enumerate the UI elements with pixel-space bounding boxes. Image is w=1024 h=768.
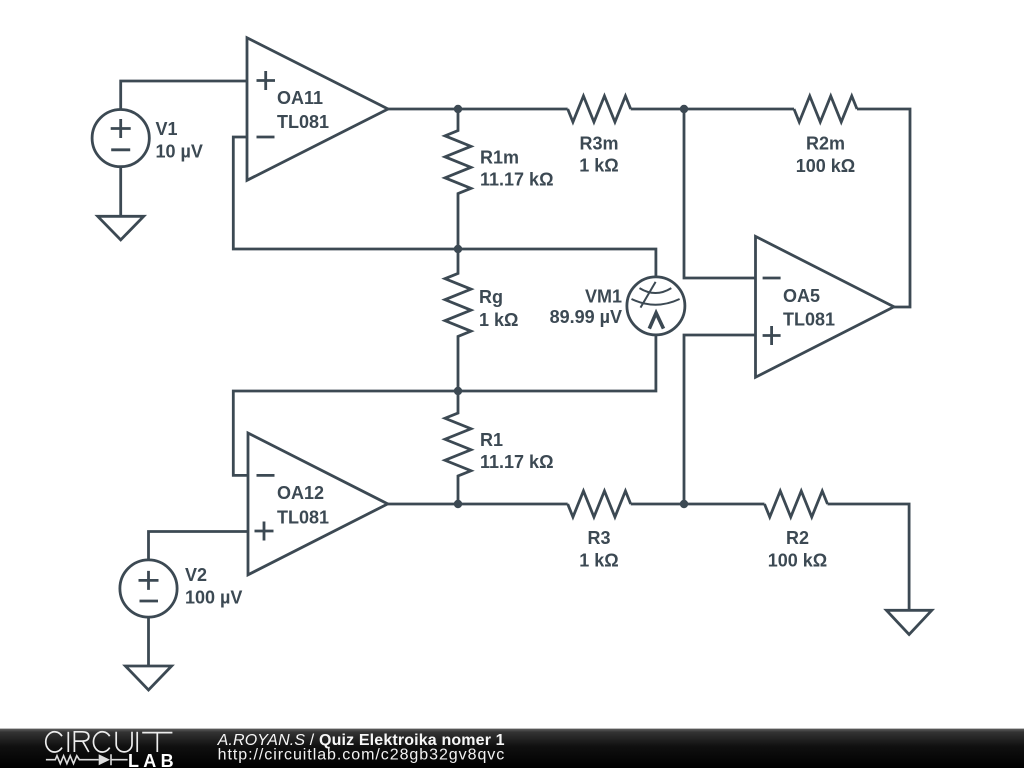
op-amp OA11 bbox=[247, 38, 388, 181]
label R3 1 kΩ bbox=[579, 528, 618, 571]
wire V2 to OA12 + bbox=[149, 532, 249, 561]
label OA11 TL081 bbox=[277, 88, 329, 132]
wire OA5 + input to bottom node bbox=[684, 335, 756, 504]
svg-text:TL081: TL081 bbox=[277, 508, 329, 528]
svg-text:V1: V1 bbox=[156, 119, 178, 139]
op-amp OA5 bbox=[756, 236, 895, 377]
resistor R3m bbox=[568, 96, 631, 122]
svg-text:OA11: OA11 bbox=[277, 88, 323, 108]
svg-text:1 kΩ: 1 kΩ bbox=[479, 310, 518, 330]
node OA12 out / R1 bbox=[454, 500, 462, 508]
label R3m 1 kΩ bbox=[579, 133, 618, 175]
wire OA11 feedback to row y=249 and VM1 top bbox=[233, 137, 656, 277]
resistor R1m bbox=[445, 109, 471, 249]
wire OA5 - input from node bbox=[684, 109, 756, 278]
footer bar bbox=[0, 728, 1024, 768]
svg-text:R1m: R1m bbox=[480, 148, 519, 168]
label V1 10 µV bbox=[156, 119, 203, 162]
label V2 100 µV bbox=[185, 565, 242, 608]
svg-text:100 kΩ: 100 kΩ bbox=[796, 156, 855, 176]
label OA5 TL081 bbox=[783, 286, 835, 330]
svg-text:R2: R2 bbox=[786, 528, 809, 548]
node R3 / R2 branch bbox=[680, 500, 688, 508]
wire V1 to OA11 + bbox=[121, 81, 247, 110]
svg-text:VM1: VM1 bbox=[585, 287, 622, 307]
svg-text:100 µV: 100 µV bbox=[185, 588, 242, 608]
svg-text:V2: V2 bbox=[185, 565, 207, 585]
svg-text:1 kΩ: 1 kΩ bbox=[579, 156, 618, 176]
svg-text:http://circuitlab.com/c28gb32g: http://circuitlab.com/c28gb32gv8qvc bbox=[218, 746, 506, 763]
node OA11 out / R1m bbox=[454, 105, 462, 113]
wire OA11 output to R3m bbox=[388, 108, 568, 111]
ground bbox=[886, 610, 931, 634]
resistor Rg bbox=[445, 249, 471, 391]
wire OA12 feedback to row y=391 and VM1 bottom bbox=[233, 335, 656, 476]
op-amp OA12 bbox=[248, 433, 388, 575]
node Rg / R1 bbox=[454, 387, 462, 395]
resistor R2m bbox=[794, 96, 857, 122]
svg-text:11.17 kΩ: 11.17 kΩ bbox=[480, 452, 554, 472]
svg-text:R2m: R2m bbox=[806, 134, 845, 154]
voltage source V1 bbox=[92, 110, 149, 167]
resistor R1 bbox=[445, 391, 471, 504]
wire R3m to R2m bbox=[631, 108, 794, 111]
label Rg 1 kΩ bbox=[479, 287, 518, 330]
svg-text:TL081: TL081 bbox=[783, 310, 835, 330]
svg-text:89.99 µV: 89.99 µV bbox=[550, 307, 622, 327]
svg-text:Rg: Rg bbox=[479, 287, 503, 307]
resistor R3 bbox=[568, 491, 631, 517]
svg-text:OA5: OA5 bbox=[783, 286, 820, 306]
resistor R2 bbox=[765, 491, 828, 517]
label R1m 11.17 kΩ bbox=[480, 148, 554, 190]
svg-text:TL081: TL081 bbox=[277, 112, 329, 132]
node R3m / R2m branch bbox=[680, 105, 688, 113]
label R2 100 kΩ bbox=[768, 528, 827, 571]
wire R2 to ground bbox=[828, 504, 910, 610]
CircuitLab logo CIRCUIT letters bbox=[46, 732, 173, 752]
wire R2m to OA5 output bbox=[857, 109, 910, 307]
node R1m / Rg bbox=[454, 245, 462, 253]
svg-text:11.17 kΩ: 11.17 kΩ bbox=[480, 170, 554, 190]
svg-text:R3: R3 bbox=[587, 528, 610, 548]
wire OA12 output to R3 bbox=[388, 503, 568, 506]
ground bbox=[125, 666, 171, 690]
svg-text:1 kΩ: 1 kΩ bbox=[579, 551, 618, 571]
label OA12 TL081 bbox=[277, 483, 329, 528]
svg-text:100 kΩ: 100 kΩ bbox=[768, 551, 827, 571]
voltmeter VM1 bbox=[627, 277, 685, 335]
label R2m 100 kΩ bbox=[796, 134, 855, 176]
wire V2 to ground bbox=[147, 617, 150, 666]
ground bbox=[98, 216, 144, 240]
CircuitLab logo squiggle (resistor + diode) bbox=[46, 754, 128, 765]
voltage source V2 bbox=[120, 560, 177, 617]
svg-text:10 µV: 10 µV bbox=[156, 142, 203, 162]
svg-text:R1: R1 bbox=[480, 430, 503, 450]
svg-text:LAB: LAB bbox=[128, 751, 178, 768]
label VM1 89.99 µV bbox=[550, 287, 622, 328]
svg-text:R3m: R3m bbox=[579, 133, 618, 153]
wire R3 to R2 bbox=[631, 503, 765, 506]
label R1 11.17 kΩ bbox=[480, 430, 554, 472]
svg-text:OA12: OA12 bbox=[277, 483, 324, 503]
wire V1 to ground bbox=[119, 167, 122, 217]
node dots bbox=[454, 105, 688, 508]
